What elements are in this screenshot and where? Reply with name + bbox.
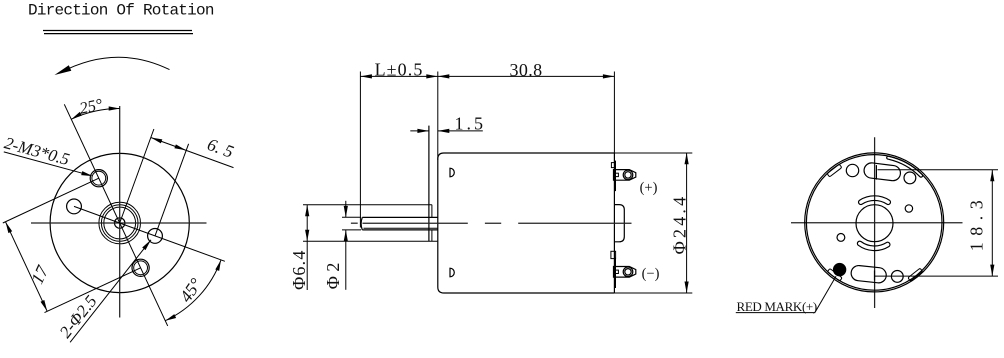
svg-text:L±0.5: L±0.5 xyxy=(375,60,424,80)
svg-text:RED MARK(+): RED MARK(+) xyxy=(737,299,817,314)
svg-text:Φ2: Φ2 xyxy=(323,258,343,289)
svg-text:(−): (−) xyxy=(642,266,660,282)
svg-text:30.8: 30.8 xyxy=(509,60,542,80)
svg-text:1.5: 1.5 xyxy=(454,114,486,134)
svg-text:Φ6.4: Φ6.4 xyxy=(289,249,309,289)
svg-text:(+): (+) xyxy=(640,180,658,196)
svg-text:Direction Of Rotation: Direction Of Rotation xyxy=(28,1,214,19)
svg-text:18.3: 18.3 xyxy=(967,194,987,252)
svg-text:Φ24.4: Φ24.4 xyxy=(670,194,690,255)
